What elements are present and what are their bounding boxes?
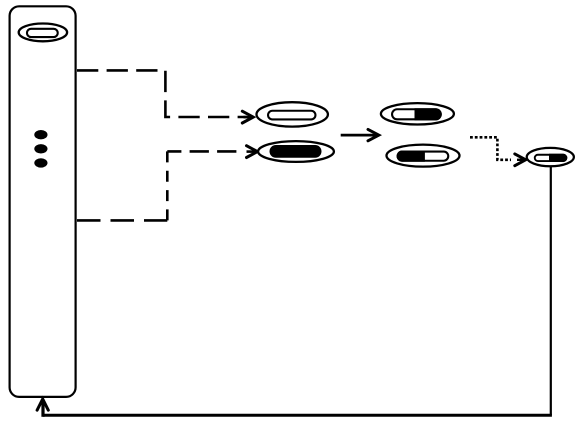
feedback wire bottom horizontal <box>43 414 552 417</box>
dotted connector (to small cell) <box>470 137 511 160</box>
stem cell nucleus (open stadium) <box>27 29 58 37</box>
half-right-black cell outer ellipse <box>381 103 454 124</box>
ellipsis dot 2 <box>34 144 47 153</box>
arrowhead up into box <box>37 399 48 410</box>
ellipsis dot 1 <box>34 130 47 139</box>
black cell nucleus (filled stadium) <box>270 145 322 158</box>
feedback wire down from small cell <box>550 167 552 416</box>
solid arrow shaft <box>341 134 378 137</box>
feedback wire up into box <box>41 401 44 417</box>
solid arrowhead <box>368 129 379 140</box>
half-left-black cell nucleus outline <box>398 152 449 161</box>
stem column box <box>10 6 76 397</box>
arrowhead into white cell <box>242 111 253 123</box>
white cell nucleus (open stadium) <box>268 111 315 120</box>
dashed connector bottom horizontal (from box) <box>77 219 167 222</box>
half-right-black cell nucleus outline <box>392 109 441 119</box>
arrowhead into black cell <box>247 146 258 158</box>
arrowhead into small cell <box>515 154 526 166</box>
dashed connector bottom vertical <box>166 151 169 220</box>
small cell nucleus right black half <box>549 154 567 162</box>
black cell outer ellipse <box>258 141 334 162</box>
dashed connector top (box to white cell) <box>77 70 247 117</box>
stem cell outer ellipse <box>19 24 67 42</box>
small differentiated cell outer ellipse <box>527 148 574 166</box>
half-left-black cell nucleus left black half <box>397 151 425 162</box>
half-left-black cell outer ellipse <box>387 145 460 167</box>
half-right-black cell nucleus right black half <box>415 108 442 120</box>
ellipsis dot 3 <box>34 158 47 167</box>
white cell outer ellipse <box>257 102 328 126</box>
small cell nucleus outline <box>535 155 567 161</box>
dashed connector to black cell horizontal <box>167 150 237 153</box>
